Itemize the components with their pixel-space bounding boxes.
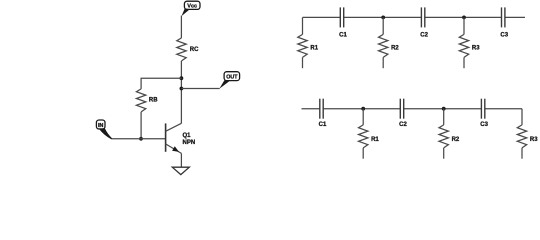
label R1 <box>310 45 318 51</box>
resistor R3 <box>517 109 526 159</box>
label R2 <box>452 137 460 143</box>
node junction R1 top <box>361 107 365 111</box>
node junction base <box>139 137 143 141</box>
node junction RB tap <box>180 76 184 80</box>
wire bottom rail segment 3 <box>404 108 482 110</box>
wire Vcc to RC <box>180 16 182 38</box>
node junction R2 top <box>381 16 385 20</box>
transistor Q1 <box>166 123 182 153</box>
resistor R2 <box>439 109 448 159</box>
label NPN <box>183 140 196 146</box>
label C2 <box>399 122 407 128</box>
wire RB to base node <box>140 112 142 139</box>
svg-text:NPN: NPN <box>183 140 196 146</box>
resistor RB <box>136 89 145 112</box>
svg-text:C2: C2 <box>399 122 407 128</box>
svg-text:RC: RC <box>190 47 199 53</box>
net label IN <box>96 120 112 139</box>
svg-text:C2: C2 <box>420 33 428 39</box>
ground <box>172 167 189 174</box>
node junction OUT tap <box>180 87 184 91</box>
label R1 <box>371 137 379 143</box>
label C2 <box>420 33 428 39</box>
wire node to OUT <box>181 88 219 90</box>
svg-text:RB: RB <box>149 98 158 104</box>
wire bottom rail segment 4 <box>485 108 522 110</box>
svg-text:Q1: Q1 <box>183 133 192 139</box>
label R3 <box>472 45 480 51</box>
svg-text:Vcc: Vcc <box>187 4 197 10</box>
label RC <box>190 47 199 53</box>
resistor R3 <box>459 17 468 68</box>
wire emitter to ground <box>180 153 182 167</box>
svg-text:C3: C3 <box>480 122 488 128</box>
resistor R2 <box>379 17 388 68</box>
capacitor C1 <box>320 99 323 119</box>
capacitor C3 <box>502 7 505 27</box>
resistor RC <box>177 38 186 61</box>
resistor R1 <box>359 109 368 159</box>
net label Vcc <box>182 1 201 16</box>
svg-text:R1: R1 <box>310 45 318 51</box>
capacitor C3 <box>481 99 484 119</box>
label Q1 <box>183 133 192 139</box>
svg-text:R1: R1 <box>371 137 379 143</box>
label C1 <box>319 122 327 128</box>
resistor R1 <box>298 17 307 68</box>
node junction R3 top <box>462 16 466 20</box>
wire IN to Q1 base <box>111 138 165 140</box>
wire top rail segment 1 <box>303 16 341 18</box>
capacitor C2 <box>400 99 403 119</box>
net label OUT <box>219 72 239 89</box>
wire RC to Q1 collector <box>180 61 182 124</box>
label C1 <box>339 33 347 39</box>
label RB <box>149 98 158 104</box>
label C3 <box>480 122 488 128</box>
wire top rail segment 2 <box>344 16 422 18</box>
svg-text:R3: R3 <box>472 45 480 51</box>
wire node to RB <box>141 78 181 89</box>
wire top rail segment 3 <box>425 16 502 18</box>
node junction R2 top <box>442 107 446 111</box>
svg-text:R2: R2 <box>391 45 399 51</box>
svg-text:R3: R3 <box>530 137 538 143</box>
label R3 <box>530 137 538 143</box>
wire bottom rail segment 1 <box>302 108 320 110</box>
svg-text:IN: IN <box>98 123 103 129</box>
svg-text:R2: R2 <box>452 137 460 143</box>
wire bottom rail segment 2 <box>323 108 400 110</box>
svg-text:C1: C1 <box>319 122 327 128</box>
svg-text:C1: C1 <box>339 33 347 39</box>
capacitor C2 <box>421 7 424 27</box>
label C3 <box>500 33 508 39</box>
label R2 <box>391 45 399 51</box>
svg-text:OUT: OUT <box>226 75 238 81</box>
svg-text:C3: C3 <box>500 33 508 39</box>
wire top rail segment 4 <box>505 16 525 18</box>
capacitor C1 <box>340 7 343 27</box>
